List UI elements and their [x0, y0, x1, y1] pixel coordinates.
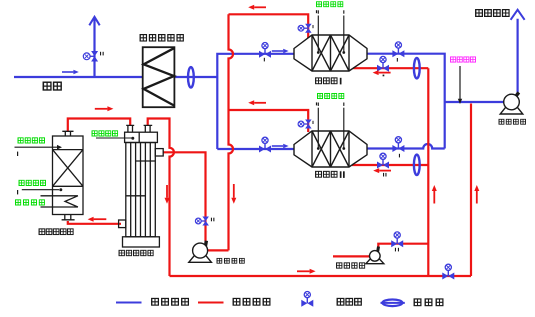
tag 11 under red valve II b [385, 173, 386, 177]
wire: main waste-gas inlet line [14, 76, 217, 78]
electric valve adsorber I red outlet [377, 56, 389, 71]
label 吸附器II [315, 171, 337, 178]
electric valve adsorber I outlet [392, 42, 404, 57]
flow arrow adsorber II inlet [272, 144, 289, 148]
tag 11b vent [103, 52, 104, 56]
flow arrow down riser left [165, 185, 170, 204]
wire: adsorber I bottom red line [353, 67, 428, 69]
label 温度探头 oxidizer lower [19, 180, 46, 186]
electric valve desorption inlet adsorber II [298, 120, 312, 129]
label 脱附风机 [217, 258, 245, 263]
tag valve 3 [397, 58, 398, 62]
flame arrestor on main line [188, 67, 194, 87]
label 电加热器 heater [15, 199, 45, 205]
wire: bottom red header [170, 275, 472, 277]
wire: stack riser [516, 19, 518, 93]
electric valve bottom header [442, 264, 454, 279]
vent arrow head [89, 17, 99, 26]
label 引风风机 [499, 119, 526, 125]
electric valve adsorber II inlet [259, 137, 271, 152]
wire: desorption fan discharge [202, 249, 229, 251]
temperature probe line 2 into oxidation bed [22, 189, 59, 191]
temperature probe line 1 into oxidation bed [15, 146, 59, 148]
wire: emergency vent riser [93, 18, 95, 78]
electric valve adsorber II outlet [392, 137, 404, 152]
wire: condenser bottom to oxidizer bottom [68, 221, 121, 224]
label 列管冷凝器 [119, 250, 154, 256]
legend flame arrestor [381, 300, 405, 307]
wire: adsorber I outlet to header [367, 54, 445, 149]
flow arrow top header [248, 5, 266, 10]
electric valve at desorption fan suction [195, 217, 208, 226]
tag valve 1 [264, 58, 265, 62]
label 吸附器I [315, 78, 337, 85]
flow arrow main inlet [62, 70, 79, 74]
adsorber I octagon [294, 35, 367, 71]
electric valve desorption inlet adsorber I [298, 24, 312, 33]
wire: condenser side nozzle to desorption fan [163, 152, 206, 241]
tag 11 under red valve II a [383, 173, 384, 177]
tag 13 makeup valve a [395, 248, 396, 252]
label 温度探头 oxidizer upper [18, 137, 45, 143]
label 吸附气管 [151, 298, 189, 306]
label 温度探头 adsorber I [316, 1, 343, 7]
wire: make-up fan branch [378, 244, 428, 248]
tag 13 makeup valve b [398, 248, 399, 252]
induced draft fan [500, 91, 523, 114]
tag 11 pump valve a [211, 218, 212, 222]
flow arrow adsorber I red [373, 70, 391, 75]
temperature probe into condenser [96, 137, 132, 139]
flow arrow down central riser [231, 184, 236, 204]
legend blue line [116, 302, 142, 304]
label 阻火器 [414, 299, 444, 307]
adsorber II temperature probes [318, 103, 344, 149]
flame arrestor adsorber I red line [414, 58, 420, 78]
probe tick 1 [17, 152, 18, 156]
label 催化氧化床 [39, 229, 74, 235]
electric valve adsorber II red outlet [377, 153, 389, 168]
wire: splitter vertical to both adsorbers [217, 54, 294, 149]
tag valve adsorber II top [313, 121, 314, 124]
tick probe reactor1 [316, 10, 317, 13]
tube condenser vessel [119, 125, 164, 247]
electric valve make-up branch [391, 232, 403, 247]
make-up air fan [366, 246, 384, 263]
label 脱附气管 [233, 298, 271, 306]
wire: make-up fan suction [333, 255, 370, 257]
flow arrow up right riser [432, 185, 437, 204]
flow arrow condenser to oxidizer [88, 217, 107, 222]
legend red line [198, 302, 224, 304]
label 温度探头 adsorber II [317, 93, 344, 99]
wire: central red riser with hops over blue lines [229, 14, 234, 250]
label 板式换热器 (plate heat exchanger) [140, 34, 184, 41]
duct temperature probe before fan [459, 66, 461, 100]
wire: adsorber II outlet with hop over red riser [367, 144, 445, 149]
wire: desorption top header to adsorber I [229, 14, 309, 38]
flow arrow oxidizer to condenser [95, 106, 114, 111]
tick probe reactor2 [316, 102, 317, 105]
adsorber I temperature probes [318, 10, 344, 52]
label 温度探头 condenser [92, 130, 118, 136]
catalytic oxidation bed vessel [53, 131, 84, 220]
wire: right red riser [427, 68, 429, 276]
flame arrestor adsorber II red line [414, 155, 420, 175]
wire: adsorber II bottom red line [352, 164, 428, 166]
wire: header to induced draft fan [445, 101, 504, 103]
electric valve on vent riser [83, 51, 98, 62]
tag valve 5 [399, 154, 400, 158]
flow arrow bottom header [297, 269, 316, 274]
electric heater element [41, 196, 78, 207]
flow arrow adsorber I inlet [272, 49, 289, 53]
wire: fresh air riser from blue duct [470, 104, 472, 277]
electric valve adsorber I inlet [259, 43, 271, 58]
desorption fan [189, 240, 212, 262]
label 温度探头 duct (magenta) [450, 57, 476, 63]
numeral I [340, 78, 342, 85]
flow arrow up fresh riser [474, 185, 479, 204]
flow arrow adsorber II red [373, 168, 391, 173]
wire: desorption branch to adsorber II [229, 110, 309, 132]
label 补新风机 [336, 262, 365, 268]
label 废气 (waste gas) [43, 82, 62, 91]
wire: oxidizer top to condenser left nozzle [68, 119, 130, 132]
flow arrow branch header [248, 100, 266, 105]
dot under red valve I [383, 75, 385, 77]
legend electric valve [301, 292, 313, 307]
tag 11a vent [100, 52, 101, 56]
tag valve 2 [313, 25, 314, 28]
adsorber II octagon [294, 131, 367, 167]
stack arrow head [511, 10, 525, 20]
heat exchanger (plate type) [143, 47, 175, 107]
label 高空排放 (high discharge) [475, 9, 509, 17]
label 电动阀 [337, 298, 362, 306]
wire: condenser right-top nozzle to down riser with hop [148, 119, 174, 277]
tag 11 pump valve b [213, 218, 214, 222]
probe tick 2 [17, 190, 18, 194]
numeral II [340, 171, 342, 178]
